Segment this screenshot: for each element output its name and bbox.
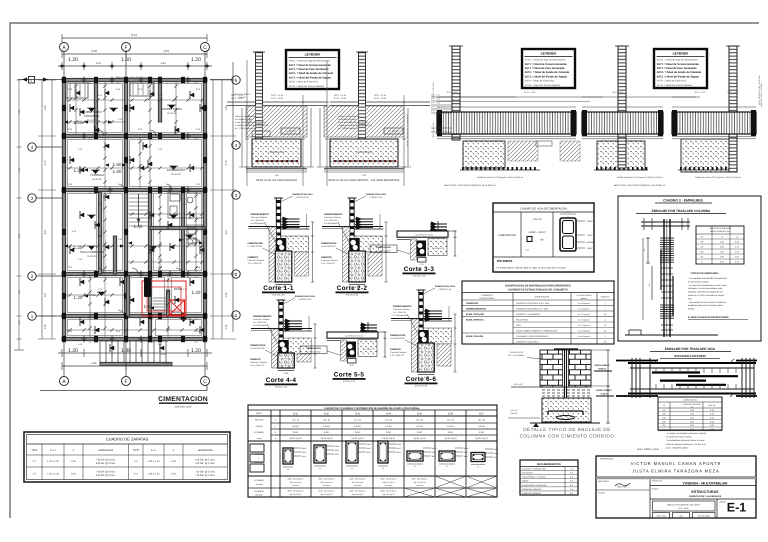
- legend box LEYENDA: [286, 50, 339, 89]
- svg-text:LONGITUD (Le): LONGITUD (Le): [683, 399, 697, 402]
- svg-text:.25: .25: [382, 467, 384, 470]
- extended top reference line over beam strip: [437, 96, 700, 98]
- svg-text:VIGAS PERALT. Y CHATAS: VIGAS PERALT. Y CHATAS: [522, 476, 546, 479]
- svg-text:.25 x .25: .25 x .25: [478, 419, 485, 422]
- svg-text:N.F.Z. = Nivel del Fondo de Za: N.F.Z. = Nivel del Fondo de Zapata: [289, 76, 332, 79]
- svg-text:Concreto Ciclopeo: Concreto Ciclopeo: [253, 318, 270, 321]
- svg-text:DETALLE TIPICO DE ANCLAJE: DETALLE TIPICO DE ANCLAJE DE: [523, 427, 611, 432]
- svg-text:0.65: 0.65: [735, 256, 739, 259]
- interior staircase: [129, 194, 148, 226]
- column vertical bars: [663, 219, 665, 337]
- svg-text:SOBRECIMIENTO: SOBRECIMIENTO: [324, 213, 343, 216]
- svg-text:-1.20 m: -1.20 m: [600, 393, 608, 396]
- svg-text:0.70: 0.70: [690, 428, 694, 431]
- svg-text:.25: .25: [446, 465, 448, 468]
- svg-text:CEMENTO: CEMENTO: [601, 296, 611, 299]
- svg-text:2.5: 2.5: [570, 476, 573, 479]
- svg-text:4 Ø5/8" + 2Ø1/2": 4 Ø5/8" + 2Ø1/2": [528, 231, 546, 234]
- svg-text:* NOTAS DE EMPALMES:: * NOTAS DE EMPALMES:: [690, 272, 719, 275]
- owners band: [596, 476, 756, 478]
- svg-text:Detalle de seccion D-D (Superi: Detalle de seccion D-D (Superior 1.50m) …: [477, 176, 523, 179]
- crossed cell: [435, 488, 466, 497]
- svg-text:CIMENTACION: CIMENTACION: [356, 151, 372, 154]
- svg-text:relleno y compactacion: relleno y compactacion: [235, 115, 257, 118]
- svg-text:DOSIFICACION: DOSIFICACION: [535, 296, 550, 299]
- svg-text:Concreto Ciclopeo: Concreto Ciclopeo: [250, 361, 267, 364]
- svg-text:TERRAZA: TERRAZA: [90, 173, 104, 177]
- svg-text:2Ø5/8": 2Ø5/8": [301, 447, 307, 450]
- level symbols (triangles) in rooms: [87, 105, 194, 322]
- svg-text:0.65: 0.65: [710, 424, 714, 427]
- svg-text:Le: Le: [721, 236, 723, 239]
- corte detail Corte 6-6: [390, 285, 457, 379]
- svg-text:N.T.N. = Nivel de Terreno Natu: N.T.N. = Nivel de Terreno Natural: [657, 84, 693, 87]
- svg-text:5.41: 5.41: [91, 361, 97, 365]
- svg-text:CIMENTACION: CIMENTACION: [306, 347, 321, 350]
- svg-text:VC: VC: [151, 318, 154, 321]
- svg-text:0.75: 0.75: [710, 428, 714, 431]
- svg-text:2.5: 2.5: [570, 472, 573, 475]
- svg-text:.25 x .25: .25 x .25: [416, 419, 423, 422]
- closet grid top-left room: [70, 83, 153, 97]
- svg-text:ZAPATAS Y VIGAS DE CIM.: ZAPATAS Y VIGAS DE CIM.: [522, 468, 546, 471]
- svg-text:LADRILLO KK: LADRILLO KK: [299, 298, 313, 301]
- svg-text:EMPALME POR TRASLAPE VIGA: EMPALME POR TRASLAPE VIGA: [665, 347, 716, 351]
- svg-text:ESCALA 1/25: ESCALA 1/25: [275, 386, 288, 389]
- plan top segment dimension 1.20 1.60 1.20: [58, 65, 212, 67]
- svg-text:ALIGERADO e=0.20: ALIGERADO e=0.20: [415, 233, 432, 236]
- svg-text:1@.05, 4@.10: 1@.05, 4@.10: [351, 437, 363, 440]
- svg-text:C-1: C-1: [293, 412, 298, 415]
- svg-text:1.20: 1.20: [68, 57, 78, 63]
- svg-text:CUADRO DE VIGA DE CIMENTAC: CUADRO DE VIGA DE CIMENTACION: [520, 208, 567, 211]
- wall: [148, 190, 151, 339]
- svg-text:1:8 + 25% P.M.: 1:8 + 25% P.M.: [393, 311, 407, 314]
- svg-text:D. RIGE PLANOS DE ESTRUCTURAS: D. RIGE PLANOS DE ESTRUCTURAS: [688, 316, 729, 319]
- wall: [62, 78, 207, 81]
- svg-text:N.P.T. = Nivel de Terreno Exis: N.P.T. = Nivel de Terreno Existente: [657, 63, 700, 66]
- svg-text:N.T.N. = Nivel de Terreno Natu: N.T.N. = Nivel de Terreno Natural: [525, 84, 561, 87]
- plan left dimension chains: [41, 80, 43, 339]
- svg-text:2: 2: [235, 272, 238, 277]
- svg-text:- en vigas, los empalmes del a: - en vigas, los empalmes del acero super…: [666, 432, 707, 435]
- svg-text:5/8": 5/8": [662, 420, 666, 423]
- svg-text:LEYENDA: LEYENDA: [541, 51, 557, 55]
- svg-text:- no empalmar mas del 50% del: - no empalmar mas del 50% del area total: [688, 277, 727, 280]
- svg-text:2Ø1/2": 2Ø1/2": [493, 452, 499, 455]
- svg-text:1.20: 1.20: [192, 290, 201, 295]
- beam band with vertical hatch segment 3: [672, 112, 756, 134]
- svg-text:Ø3/8": 1@.05,4@.10: Ø3/8": 1@.05,4@.10: [381, 490, 397, 493]
- svg-text:CONCRETO CICLOPEO: CONCRETO CICLOPEO: [516, 340, 539, 343]
- column ladder: [618, 46, 626, 168]
- svg-text:N.F.Z. +0.00: N.F.Z. +0.00: [374, 97, 387, 100]
- wall: [62, 80, 65, 339]
- svg-text:tabiqueria apoyada sobre losa: tabiqueria apoyada sobre losa ver E-3: [116, 76, 154, 79]
- svg-text:Ø: Ø: [701, 236, 703, 239]
- svg-text:para = empalme s/plano: para = empalme s/plano: [666, 446, 689, 449]
- svg-text:b x t: b x t: [51, 449, 56, 452]
- svg-text:h: h: [73, 449, 75, 452]
- beam band with vertical hatch segment 1: [437, 112, 576, 134]
- svg-text:RECUBRIMIENTOS: RECUBRIMIENTOS: [537, 463, 561, 466]
- svg-text:FECHA: 2021: FECHA: 2021: [698, 515, 710, 518]
- svg-text:0.50: 0.50: [720, 251, 724, 254]
- svg-text:N.T.N. -1.50 prof. min. de cim: N.T.N. -1.50 prof. min. de cimentacion: [406, 114, 409, 146]
- svg-text:LONGITUD DE EMPALME: LONGITUD DE EMPALME: [709, 227, 731, 230]
- wall: [126, 276, 129, 316]
- svg-text:2Ø5/8": 2Ø5/8": [431, 447, 437, 450]
- svg-text:f'c=140 KG/CM2: f'c=140 KG/CM2: [307, 350, 321, 353]
- crossed cell: [466, 488, 497, 497]
- svg-text:0.50: 0.50: [284, 372, 289, 375]
- floor slab lines: [366, 101, 431, 103]
- svg-text:Z-3: Z-3: [134, 460, 138, 463]
- svg-text:8.41: 8.41: [131, 33, 137, 37]
- break marks: [654, 359, 658, 363]
- svg-text:1.5: 1.5: [604, 329, 608, 332]
- wall: [62, 134, 207, 137]
- svg-text:A: A: [62, 379, 66, 385]
- svg-text:0.25: 0.25: [183, 203, 188, 206]
- svg-text:ESCALA 1/25: ESCALA 1/25: [272, 294, 285, 297]
- svg-text:Concreto Ciclopeo: Concreto Ciclopeo: [251, 216, 268, 219]
- footing detail column ladder: [359, 52, 366, 139]
- footing concrete block: [330, 139, 398, 167]
- svg-text:0.45: 0.45: [735, 246, 739, 249]
- svg-text:N.V.C. = Nivel de Viga de Cime: N.V.C. = Nivel de Viga de Cimentacion: [525, 59, 567, 62]
- svg-text:1.20 x 1.20: 1.20 x 1.20: [148, 472, 160, 475]
- svg-text:Ø3/8": 1@.05,4@.10: Ø3/8": 1@.05,4@.10: [381, 478, 397, 481]
- svg-text:N.F.P.(Z)=-1.05, min 0.20m: N.F.P.(Z)=-1.05, min 0.20m: [760, 83, 763, 107]
- beam end verticals: [631, 358, 633, 398]
- svg-text:ELEM. PULIDOS: ELEM. PULIDOS: [466, 335, 484, 338]
- svg-text:N.F.Z. = Nivel del Fondo de Za: N.F.Z. = Nivel del Fondo de Zapata: [657, 75, 700, 78]
- svg-text:.25 x .25: .25 x .25: [292, 419, 299, 422]
- svg-text:Y: Y: [258, 457, 260, 460]
- svg-text:2Ø1/2": 2Ø1/2": [366, 447, 372, 450]
- svg-text:CEMENTO + HORMIGON: CEMENTO + HORMIGON: [516, 313, 540, 316]
- ground hatch left of column: [324, 106, 359, 137]
- svg-text:indicadas o con los porcentaje: indicadas o con los porcentajes espe-: [688, 287, 723, 290]
- svg-text:.25 x .25: .25 x .25: [354, 419, 361, 422]
- svg-text:1: 1: [604, 307, 606, 310]
- ground hatch right of column: [366, 106, 405, 137]
- wall: [158, 80, 161, 122]
- corte detail Corte 5-5: [300, 322, 387, 367]
- svg-text:1.20 x 1.40: 1.20 x 1.40: [47, 472, 59, 475]
- svg-text:ESCALA 1/25: ESCALA 1/25: [346, 294, 359, 297]
- svg-text:Z-1: Z-1: [32, 460, 36, 463]
- svg-text:3@.15 rto @.20: 3@.15 rto @.20: [352, 481, 364, 484]
- svg-text:2 VARILLAS DE: 2 VARILLAS DE: [509, 351, 524, 354]
- red highlight rectangle inner: [147, 287, 181, 311]
- svg-text:NIVEL: NIVEL: [256, 412, 263, 415]
- svg-text:JUSTA ELMIRA TARAZONA MEZA: JUSTA ELMIRA TARAZONA MEZA: [632, 469, 719, 474]
- svg-text:Corte 6-6: Corte 6-6: [406, 376, 437, 383]
- ground hatch left of column: [246, 106, 256, 137]
- svg-text:1.00: 1.00: [274, 174, 279, 177]
- svg-text:.25 x .25: .25 x .25: [323, 419, 330, 422]
- svg-text:0.60: 0.60: [720, 256, 724, 259]
- svg-text:1:8 + 25% P.M.: 1:8 + 25% P.M.: [324, 219, 338, 222]
- svg-text:1.20: 1.20: [191, 348, 201, 354]
- bath partition: [168, 192, 203, 218]
- svg-text:ESTRIBOS: ESTRIBOS: [254, 490, 264, 493]
- svg-text:a una densidad maxima (proctor: a una densidad maxima (proctor): [338, 121, 369, 124]
- matching right section marker: [210, 79, 232, 81]
- svg-text:0.45: 0.45: [710, 417, 714, 420]
- svg-text:3º: 3º: [275, 431, 277, 434]
- svg-text:LAMINA:: LAMINA:: [719, 501, 727, 504]
- svg-text:C: C: [203, 379, 207, 385]
- outer left dimension chain: [18, 80, 20, 350]
- svg-text:0.25: 0.25: [158, 258, 163, 261]
- bath fixtures: [170, 194, 193, 215]
- svg-text:ESTRUCTURAL: ESTRUCTURAL: [480, 297, 496, 300]
- section cut flags in plan: [76, 89, 194, 352]
- svg-text:+0.00 N.T.N.: +0.00 N.T.N.: [362, 348, 373, 351]
- flanking dimension verticals extended detail1: [246, 60, 248, 186]
- svg-text:Ø3/8": 1@.05,4@.10: Ø3/8": 1@.05,4@.10: [319, 490, 335, 493]
- bottom dim line and caption: [324, 171, 404, 173]
- dosificacion de materiales table: [462, 281, 614, 344]
- svg-text:DETALLE DE COLUMNA CENTRAL - C: DETALLE DE COLUMNA CENTRAL - COLUMNA PER…: [328, 179, 400, 182]
- svg-text:CIMIENTO: CIMIENTO: [248, 256, 259, 259]
- svg-text:1.20: 1.20: [68, 348, 78, 354]
- svg-text:C-3: C-3: [196, 88, 201, 91]
- scale date cells: [653, 513, 670, 519]
- plan door openings and misc marks: [98, 130, 182, 316]
- svg-text:5: 5: [235, 78, 238, 83]
- svg-text:2Ø5/8": 2Ø5/8": [463, 447, 469, 450]
- svg-text:2Ø1/2": 2Ø1/2": [334, 449, 340, 452]
- svg-text:3.95: 3.95: [18, 233, 21, 238]
- svg-text:0.25: 0.25: [78, 148, 83, 151]
- svg-text:2.75: 2.75: [44, 160, 47, 166]
- svg-text:.25: .25: [414, 465, 416, 468]
- svg-text:1.20: 1.20: [74, 120, 83, 125]
- callout box: [281, 128, 300, 134]
- lap splice bars staggered: [652, 371, 700, 373]
- svg-text:SOBRETECHO VIGA: SOBRETECHO VIGA: [366, 193, 387, 196]
- svg-text:N.P.C. = Nivel de Fondo de Cim: N.P.C. = Nivel de Fondo de Cimiento: [657, 71, 702, 74]
- svg-text:4.07: 4.07: [44, 229, 47, 235]
- svg-text:C-3: C-3: [355, 412, 360, 415]
- svg-text:Corte 3-3: Corte 3-3: [404, 266, 435, 273]
- svg-text:1:10 + 30% P.G.: 1:10 + 30% P.G.: [321, 262, 336, 265]
- svg-text:VC: VC: [89, 341, 92, 344]
- closet partition top-left: [66, 82, 88, 98]
- wall: [166, 290, 169, 316]
- svg-text:1.60: 1.60: [18, 289, 21, 294]
- svg-text:1:8 + 25% P.M.: 1:8 + 25% P.M.: [251, 219, 265, 222]
- svg-text:T-2 Estribos Ø3/8" 1@0.05, 4@0: T-2 Estribos Ø3/8" 1@0.05, 4@0.10, 3@0.1…: [496, 267, 567, 270]
- svg-text:3/8" x COLUMNA: 3/8" x COLUMNA: [508, 354, 524, 357]
- svg-text:7.0: 7.0: [570, 468, 573, 471]
- svg-text:0.60: 0.60: [690, 424, 694, 427]
- svg-text:2Ø5/8": 2Ø5/8": [587, 220, 593, 223]
- svg-text:SAP. # 03: SAP. # 03: [514, 383, 524, 386]
- svg-text:h=0.50(especif.): h=0.50(especif.): [393, 314, 408, 317]
- svg-text:1.97: 1.97: [44, 292, 47, 298]
- svg-text:1.40: 1.40: [225, 292, 228, 298]
- svg-text:3: 3: [235, 193, 238, 198]
- svg-text:1.60: 1.60: [121, 57, 131, 63]
- floor slab lines: [263, 101, 328, 103]
- svg-text:N.P.T. +0.15: N.P.T. +0.15: [334, 94, 347, 97]
- svg-text:ESTRIBOS: ESTRIBOS: [254, 431, 264, 434]
- svg-text:f'c=210 kg/cm2: f'c=210 kg/cm2: [578, 329, 590, 332]
- beam top reference lines: [437, 106, 576, 108]
- wall: [203, 80, 206, 339]
- footing stipple 2: [597, 141, 645, 170]
- svg-text:1/2": 1/2": [662, 417, 666, 420]
- svg-text:0.25: 0.25: [98, 288, 103, 291]
- svg-text:C-3: C-3: [68, 266, 73, 269]
- svg-text:CIMENTACION: CIMENTACION: [390, 334, 406, 337]
- svg-text:N.F.P. = Nivel de Falso Piso: N.F.P. = Nivel de Falso Piso: [657, 80, 687, 83]
- svg-text:2.35: 2.35: [160, 353, 166, 356]
- svg-text:kg/cm2: kg/cm2: [581, 297, 587, 300]
- column section sketches: [283, 448, 293, 464]
- footing stipple 1: [463, 141, 505, 168]
- svg-text:N.P.T. = Nivel de Piso Termina: N.P.T. = Nivel de Piso Terminado: [657, 67, 697, 70]
- svg-text:Ø3/8": Ø3/8": [494, 456, 499, 459]
- svg-text:■ N.F.P.(Z)=-1.05,F=(Z)0.10,S(: ■ N.F.P.(Z)=-1.05,F=(Z)0.10,S(Z)0.15, mi…: [445, 184, 497, 187]
- svg-text:N.P.T. +0.15: N.P.T. +0.15: [431, 93, 440, 96]
- left stack of small sections: [250, 444, 264, 452]
- svg-text:C-3: C-3: [116, 88, 121, 91]
- svg-text:3/4": 3/4": [662, 424, 666, 427]
- svg-text:SEGUN DIAMETRO (Le): SEGUN DIAMETRO (Le): [710, 230, 730, 233]
- svg-text:f'c=140 kg/cm2: f'c=140 kg/cm2: [578, 307, 590, 310]
- svg-text:SUPERIOR E INFERIOR: SUPERIOR E INFERIOR: [674, 354, 705, 358]
- svg-text:y optimo contenido de humedad: y optimo contenido de humedad (%): [338, 124, 372, 127]
- svg-text:CUADRO 2 - EMPALMES: CUADRO 2 - EMPALMES: [663, 199, 703, 203]
- svg-text:ESCALA 1/25: ESCALA 1/25: [413, 275, 426, 278]
- svg-text:ELEMENTO: ELEMENTO: [482, 294, 493, 297]
- svg-text:SOBRECIMIENTO: SOBRECIMIENTO: [253, 315, 272, 318]
- anchor hook: [548, 410, 583, 412]
- svg-text:f'c=175 kg/cm2: f'c=175 kg/cm2: [578, 318, 590, 321]
- svg-text:ESTRUCTURAS: ESTRUCTURAS: [691, 490, 719, 494]
- svg-text:CIMIENTO: CIMIENTO: [321, 256, 332, 259]
- proyecto row: [650, 485, 756, 487]
- splice side bars: [660, 250, 662, 290]
- svg-text:0.35: 0.35: [735, 241, 739, 244]
- svg-text:LADRILLO KK: LADRILLO KK: [370, 196, 384, 199]
- svg-text:0.40: 0.40: [171, 472, 176, 475]
- svg-text:Ø3/8": Ø3/8": [335, 453, 340, 456]
- svg-text:CONCRETO CICLOPEO 1:10 + 30%: CONCRETO CICLOPEO 1:10 + 30%: [516, 302, 549, 305]
- svg-text:1.60: 1.60: [113, 169, 122, 174]
- footing rebar dots (red): [256, 160, 298, 162]
- svg-text:2Ø1/2": 2Ø1/2": [463, 451, 469, 454]
- svg-text:1": 1": [701, 261, 703, 264]
- svg-text:2Ø1/2": 2Ø1/2": [431, 451, 437, 454]
- svg-text:SECCION: SECCION: [254, 453, 264, 456]
- footing stipple 3: [681, 139, 735, 172]
- title block: [596, 456, 756, 518]
- left section marker at top wall row: [18, 79, 62, 81]
- svg-text:relleno y compactacion: relleno y compactacion: [338, 115, 360, 118]
- wall: [100, 362, 172, 365]
- callout box: [384, 128, 403, 134]
- svg-text:ARMADURA: ARMADURA: [198, 449, 213, 452]
- svg-text:PRINCIPAL: PRINCIPAL: [84, 114, 100, 118]
- svg-text:Z-4: Z-4: [134, 472, 138, 475]
- svg-text:0.40: 0.40: [171, 460, 176, 463]
- svg-text:3/4": 3/4": [700, 256, 704, 259]
- svg-text:Ø3/8": Ø3/8": [464, 455, 469, 458]
- svg-text:ELEMENTOS ESTRUCTURALES DE: ELEMENTOS ESTRUCTURALES DE CONCRETO: [508, 289, 568, 292]
- stirrup cluster upper: [660, 238, 674, 262]
- beam stirrup ticks: [655, 368, 657, 373]
- svg-text:3@.15 rto @.20: 3@.15 rto @.20: [321, 493, 333, 496]
- svg-text:1.5: 1.5: [604, 313, 608, 316]
- svg-text:NIV. DE: NIV. DE: [511, 409, 518, 412]
- svg-text:h=0.50(especif.): h=0.50(especif.): [251, 222, 266, 225]
- bottom dim line and caption: [246, 171, 307, 173]
- wall: [62, 314, 152, 317]
- svg-text:DOSIFICACION DE MATERIALES: DOSIFICACION DE MATERIALES PARA DIFERENT…: [505, 285, 571, 288]
- svg-text:f'c=140 KG/CM2: f'c=140 KG/CM2: [390, 337, 406, 340]
- svg-text:1:10 + 30% P.G.: 1:10 + 30% P.G.: [390, 354, 405, 357]
- svg-text:ELEM. ESTRUCT.: ELEM. ESTRUCT.: [466, 318, 484, 321]
- footing rebar dots (red): [334, 160, 396, 162]
- svg-text:C-3: C-3: [68, 183, 73, 186]
- svg-text:C-3: C-3: [138, 128, 143, 131]
- svg-text:- para esfuerzos de traccion e: - para esfuerzos de traccion en columnas: [688, 301, 726, 304]
- dimension verticals: [319, 108, 321, 167]
- beam cross-section in table: [560, 218, 576, 251]
- ground hatch right of column: [263, 106, 308, 137]
- kitchen counter: [186, 225, 203, 255]
- svg-text:Corte 1-1: Corte 1-1: [263, 285, 294, 292]
- svg-text:5/8": 5/8": [700, 251, 704, 254]
- svg-text:CIMENTACION: CIMENTACION: [269, 151, 285, 154]
- svg-text:c/extremo: c/extremo: [416, 484, 423, 487]
- svg-text:LOSAS: LOSAS: [522, 480, 529, 483]
- svg-text:0.25: 0.25: [78, 258, 83, 261]
- svg-text:3/8": 3/8": [540, 239, 544, 242]
- svg-text:SOBRETECHO VIGA: SOBRETECHO VIGA: [295, 295, 316, 298]
- svg-text:N.P.T. = Nivel de Piso Termina: N.P.T. = Nivel de Piso Terminado: [525, 67, 565, 70]
- svg-text:0.40: 0.40: [690, 417, 694, 420]
- svg-text:miento: miento: [688, 308, 695, 311]
- svg-text:4 Ø 5/8": 4 Ø 5/8": [478, 425, 485, 428]
- beam end cap bars: [616, 360, 658, 362]
- svg-text:N.+0.30: N.+0.30: [167, 112, 177, 115]
- svg-text:0.25: 0.25: [98, 203, 103, 206]
- svg-text:- los empalmes del acero infer: - los empalmes del acero inferior se har…: [666, 439, 706, 442]
- svg-text:c/extremo: c/extremo: [385, 484, 392, 487]
- footing concrete block: [252, 139, 301, 167]
- crossed cell: [404, 488, 435, 497]
- svg-text:C-4: C-4: [386, 412, 391, 415]
- svg-text:NIVEL SUELO: NIVEL SUELO: [595, 364, 610, 367]
- svg-text:6.23: 6.23: [163, 361, 169, 365]
- wall: [152, 314, 207, 317]
- svg-text:8 Ø 5/8" @ 0.15m.: 8 Ø 5/8" @ 0.15m.: [96, 462, 116, 465]
- svg-text:3@.15 rto @.20: 3@.15 rto @.20: [383, 481, 395, 484]
- svg-text:N.+0.30: N.+0.30: [87, 119, 97, 122]
- svg-text:Corte 4-4: Corte 4-4: [266, 377, 297, 384]
- svg-text:CIMENTACION: CIMENTACION: [376, 246, 391, 249]
- svg-text:LADRILLO KK: LADRILLO KK: [439, 288, 453, 291]
- svg-text:con material propio: con material propio: [338, 118, 357, 121]
